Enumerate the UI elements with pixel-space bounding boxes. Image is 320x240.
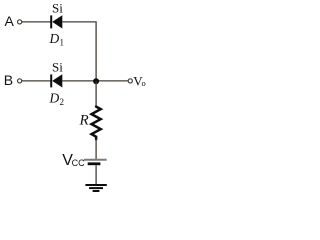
- resistor R: [92, 107, 101, 140]
- label R: [79, 113, 89, 129]
- wire: [62, 22, 96, 81]
- svg-text:B: B: [4, 72, 13, 88]
- node A: [5, 13, 15, 29]
- wire: [95, 81, 97, 107]
- wire: [95, 165, 97, 184]
- wire: [95, 139, 97, 159]
- svg-text:Si: Si: [52, 0, 63, 15]
- svg-text:1: 1: [60, 38, 65, 48]
- wire: [62, 80, 128, 82]
- label D1: [49, 31, 65, 48]
- svg-text:CC: CC: [72, 158, 85, 168]
- svg-text:2: 2: [60, 97, 65, 107]
- svg-text:Si: Si: [52, 59, 63, 74]
- input terminal A: [18, 20, 22, 24]
- svg-text:o: o: [142, 78, 146, 88]
- svg-text:D: D: [49, 31, 60, 46]
- diode D1: [51, 15, 62, 28]
- node B: [4, 72, 13, 88]
- wire: [22, 21, 51, 23]
- label D2: [49, 90, 65, 107]
- node Vo: [133, 73, 145, 88]
- label Si (D2): [52, 59, 63, 74]
- ground: [85, 185, 106, 191]
- svg-text:A: A: [5, 13, 15, 29]
- label Si (D1): [52, 0, 63, 15]
- battery VCC: [84, 160, 107, 164]
- diode D2: [51, 74, 62, 87]
- label VCC: [62, 152, 85, 169]
- wire: [22, 80, 51, 82]
- junction: [93, 78, 99, 84]
- svg-text:D: D: [49, 90, 60, 105]
- output terminal: [128, 79, 132, 83]
- svg-text:R: R: [79, 113, 89, 129]
- input terminal B: [18, 79, 22, 83]
